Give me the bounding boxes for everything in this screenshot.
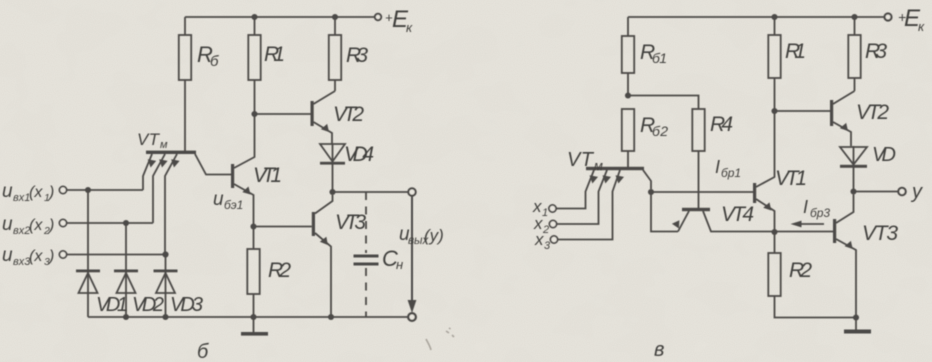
terminal output bottom bbox=[408, 313, 416, 321]
wire input 1 bbox=[67, 189, 143, 191]
resistor R3 left bbox=[329, 35, 341, 80]
node in1-VD1 bbox=[85, 187, 91, 193]
svg-text:R3: R3 bbox=[865, 40, 887, 63]
transistor VTm right: base bar bbox=[586, 167, 644, 170]
svg-text:VD1: VD1 bbox=[96, 294, 128, 316]
wire R3-r bottom bbox=[854, 78, 856, 91]
svg-text:R1: R1 bbox=[785, 40, 806, 63]
terminal y bbox=[898, 188, 905, 195]
diode VD4 bbox=[320, 144, 345, 162]
wire top rail left bbox=[185, 16, 374, 18]
transistor VT2 right: base bar bbox=[830, 100, 833, 126]
VT2-r emitter bbox=[833, 122, 851, 146]
node Rb1/Rb2/R4 bbox=[625, 92, 631, 98]
resistor R4 bbox=[692, 109, 704, 151]
terminal x1 bbox=[549, 205, 556, 212]
node VT3e-rail bbox=[328, 314, 334, 320]
svg-text:(х: (х bbox=[29, 217, 43, 234]
svg-text:б2: б2 bbox=[652, 123, 668, 139]
terminal output top bbox=[408, 188, 415, 195]
svg-text:u: u bbox=[2, 245, 13, 266]
svg-text:VT1: VT1 bbox=[253, 164, 282, 187]
svg-text:R2: R2 bbox=[268, 259, 291, 282]
svg-text:I: I bbox=[715, 157, 720, 177]
terminal input 1 bbox=[59, 186, 66, 193]
svg-text:u: u bbox=[2, 214, 13, 235]
VTm-r emitter 1 bbox=[556, 170, 594, 209]
node out right bbox=[850, 188, 856, 194]
svg-text:): ) bbox=[47, 248, 54, 265]
node VD2-rail bbox=[123, 314, 129, 320]
wire Rb1 bottom bbox=[627, 73, 629, 96]
svg-text:VT3: VT3 bbox=[335, 211, 366, 234]
wire R3 top bbox=[334, 17, 336, 35]
svg-text:м: м bbox=[594, 158, 603, 173]
transistor VT2 left: base bar bbox=[311, 101, 314, 126]
VT1-r collector bbox=[756, 78, 775, 187]
VT3 emitter bbox=[315, 233, 331, 317]
svg-text:б: б bbox=[210, 53, 219, 70]
svg-text:R4: R4 bbox=[710, 113, 733, 136]
resistor R2 left bbox=[247, 249, 259, 294]
ground left bbox=[253, 317, 255, 332]
wire VD4 to node bbox=[332, 144, 334, 192]
VT4 collector bbox=[703, 211, 775, 232]
svg-text:(у): (у) bbox=[424, 226, 444, 245]
wire R2 top bbox=[253, 227, 255, 250]
wire R3 bottom bbox=[334, 80, 336, 91]
node R1/VT2 base bbox=[771, 108, 777, 114]
VT3 collector bbox=[315, 195, 333, 214]
svg-text:I: I bbox=[803, 197, 808, 217]
VT1-r emitter bbox=[756, 199, 775, 232]
wire R1-r top bbox=[774, 17, 776, 35]
terminal +Ek left bbox=[375, 14, 381, 20]
svg-text:VT3: VT3 bbox=[862, 222, 898, 245]
svg-text:бр3: бр3 bbox=[810, 206, 830, 220]
svg-text:VT: VT bbox=[567, 149, 595, 171]
svg-text:б: б bbox=[197, 341, 209, 362]
node VT1e/R2/VT3b bbox=[250, 223, 256, 229]
svg-text:): ) bbox=[47, 184, 54, 201]
wire VD to node bbox=[853, 146, 855, 189]
VTm emitter 2 bbox=[153, 154, 165, 223]
resistor R2 right bbox=[768, 253, 780, 296]
svg-text:б1: б1 bbox=[652, 50, 667, 66]
scan artifact marks bbox=[426, 328, 454, 350]
resistor R1 left bbox=[248, 35, 260, 80]
svg-text:к: к bbox=[918, 19, 925, 34]
terminal input 2 bbox=[59, 219, 66, 226]
VTm emitter 1 bbox=[143, 154, 152, 190]
VTm-r collector bbox=[643, 170, 651, 189]
resistor Rb bbox=[179, 35, 191, 80]
svg-text:VD2: VD2 bbox=[132, 294, 164, 316]
resistor Rb1 bbox=[622, 36, 634, 73]
wire Rb bottom to VTm bar bbox=[184, 80, 186, 151]
wire output top bbox=[333, 191, 409, 193]
VTm collector wire to VT1 base bbox=[195, 154, 231, 175]
svg-text:(х: (х bbox=[29, 184, 43, 201]
svg-text:): ) bbox=[47, 217, 54, 234]
wire Rb top bbox=[184, 17, 186, 35]
wire input 2 bbox=[67, 222, 153, 224]
wire output right vertical with arrow bbox=[411, 196, 413, 303]
svg-text:VD: VD bbox=[872, 144, 896, 166]
diode VD right bbox=[840, 147, 867, 165]
svg-text:VT1: VT1 bbox=[775, 167, 807, 190]
wire R2-r bottom + rail bbox=[775, 296, 857, 318]
VTm-r emitter 2 bbox=[557, 170, 608, 224]
svg-text:м: м bbox=[160, 139, 168, 151]
svg-text:вх2: вх2 bbox=[13, 225, 30, 237]
node out left bbox=[329, 189, 335, 195]
diode VD3 bbox=[165, 257, 167, 317]
wire Rb2 bottom to VTm bar bbox=[627, 151, 629, 167]
svg-text:у: у bbox=[910, 181, 923, 203]
node rail-R3 bbox=[332, 14, 338, 20]
svg-text:VT2: VT2 bbox=[333, 103, 364, 126]
svg-text:VT2: VT2 bbox=[856, 101, 889, 124]
svg-text:бр1: бр1 bbox=[721, 166, 741, 180]
node rail-R1 bbox=[251, 14, 257, 20]
svg-text:u: u bbox=[213, 189, 224, 210]
wire to VT1 base bbox=[651, 191, 753, 193]
wire R1 top bbox=[254, 17, 256, 35]
VTm-r emitter 3 bbox=[558, 170, 621, 240]
svg-text:R1: R1 bbox=[264, 43, 285, 66]
diode VD1 bbox=[87, 190, 89, 317]
VTm emitter 3 bbox=[165, 154, 177, 255]
svg-text:u: u bbox=[2, 181, 13, 202]
wire input 3 bbox=[67, 254, 165, 256]
wire VT2-r base bbox=[775, 110, 831, 112]
svg-text:VD3: VD3 bbox=[170, 294, 203, 316]
node rail R3-r bbox=[851, 14, 857, 20]
wire bottom rail left bbox=[88, 316, 408, 318]
VT3-r collector bbox=[836, 195, 854, 224]
node in2-VD2 bbox=[123, 220, 129, 226]
capacitor Cn dashed link bbox=[365, 192, 367, 253]
node rail right bbox=[853, 314, 859, 320]
VT4 emitter bbox=[678, 211, 689, 232]
VT1 emitter bbox=[234, 184, 254, 227]
node R1/VT2-base bbox=[251, 111, 257, 117]
svg-text:R3: R3 bbox=[346, 44, 368, 67]
svg-text:вх1: вх1 bbox=[13, 192, 30, 204]
transistor VT1 left: base bar bbox=[231, 164, 234, 188]
node VT1e/R2/VT3b bbox=[771, 229, 777, 235]
ground right bbox=[855, 318, 857, 330]
svg-text:VT: VT bbox=[137, 130, 161, 149]
resistor R1 right bbox=[768, 35, 780, 78]
transistor VTm left: base bar bbox=[146, 151, 196, 154]
svg-text:1: 1 bbox=[542, 207, 548, 219]
terminal x3 bbox=[550, 236, 557, 243]
wire R1 bottom bbox=[254, 80, 256, 114]
current arrow Ibr3 bbox=[800, 223, 824, 225]
svg-text:R2: R2 bbox=[789, 259, 812, 282]
VT2 emitter bbox=[314, 122, 333, 144]
svg-text:н: н bbox=[396, 257, 403, 272]
terminal x2 bbox=[549, 220, 556, 227]
wire top rail right bbox=[628, 16, 884, 18]
wire down to VT4 emitter bbox=[651, 192, 678, 232]
resistor Rb2 bbox=[622, 109, 634, 151]
svg-text:к: к bbox=[406, 20, 413, 35]
node in3-VD3 bbox=[162, 251, 168, 257]
wire VT2 base bbox=[255, 113, 311, 115]
wire R3-r top bbox=[854, 17, 856, 35]
wire Rb1 top bbox=[627, 17, 629, 36]
node VTm-c bbox=[648, 189, 654, 195]
svg-text:3: 3 bbox=[544, 240, 551, 252]
terminal input 3 bbox=[59, 251, 66, 258]
transistor VT4: base bar bbox=[682, 208, 710, 211]
VT2 collector bbox=[314, 91, 336, 104]
node VD3-rail bbox=[162, 314, 168, 320]
svg-text:VD4: VD4 bbox=[344, 143, 374, 166]
transistor VT3 left: base bar bbox=[312, 212, 315, 236]
wire branch to R4 bbox=[628, 96, 699, 110]
wire R2 bottom bbox=[253, 294, 255, 317]
wire R2-r top bbox=[774, 232, 776, 253]
terminal +Ek right bbox=[885, 14, 892, 21]
diode VD2 bbox=[125, 223, 127, 317]
wire R4 bottom to VT4 base bbox=[698, 151, 700, 208]
VT1 collector bbox=[234, 114, 255, 168]
svg-text:(х: (х bbox=[29, 248, 43, 265]
capacitor Cn plates bbox=[354, 255, 379, 258]
transistor VT1 right: base bar bbox=[753, 183, 756, 203]
transistor VT3 right: base bar bbox=[833, 219, 836, 243]
node rail R1-r bbox=[771, 14, 777, 20]
svg-text:в: в bbox=[654, 339, 664, 361]
wire output right bbox=[854, 191, 899, 193]
svg-text:бэ1: бэ1 bbox=[224, 198, 243, 212]
node R2-rail bbox=[250, 314, 256, 320]
svg-text:х: х bbox=[534, 230, 544, 249]
resistor R3 right bbox=[848, 35, 860, 78]
VT3 base wire bbox=[254, 226, 312, 228]
svg-text:VT4: VT4 bbox=[721, 203, 754, 226]
VT3-r emitter bbox=[836, 239, 856, 318]
wire VT3 base bbox=[775, 231, 834, 233]
VT2-r collector bbox=[833, 91, 855, 104]
